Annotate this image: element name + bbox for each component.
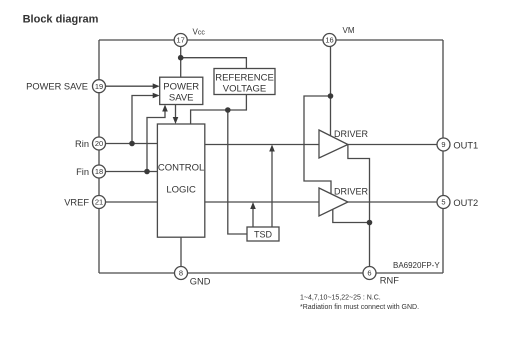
svg-text:6: 6 — [367, 269, 371, 278]
op-amp driver1 A1 — [319, 130, 348, 158]
svg-text:20: 20 — [95, 139, 103, 148]
pin 6 circle (RNF) — [363, 267, 376, 280]
arrowhead: TSD up to driver1 line — [269, 145, 275, 152]
svg-text:VREF: VREF — [64, 197, 89, 207]
svg-text:19: 19 — [95, 82, 103, 91]
block: REFERENCE VOLTAGE U2 — [214, 69, 275, 95]
wire: TSD output arrow line to driver1 input line — [271, 149, 273, 227]
wire: VM drop from pin 16 into driver1 top — [330, 47, 332, 136]
wire: POWER SAVE to CONTROL LOGIC — [175, 105, 177, 118]
wire: Fin line to CONTROL LOGIC — [106, 171, 158, 173]
svg-text:DRIVER: DRIVER — [334, 187, 369, 197]
svg-text:RNF: RNF — [380, 276, 399, 286]
block: CONTROL LOGIC U3 — [157, 124, 204, 237]
svg-text:Vcc: Vcc — [193, 28, 206, 37]
pin 17 circle (Vcc) — [174, 34, 187, 47]
wire: outer bottom rail (GND rail) — [99, 272, 443, 274]
wire: CONTROL LOGIC to driver2 input — [205, 201, 319, 203]
wire: outer right rail (OUT rail) — [442, 40, 444, 273]
svg-text:Block diagram: Block diagram — [23, 14, 99, 26]
junction: Vcc node dot — [178, 55, 184, 61]
pin 18 circle (Fin) — [93, 165, 106, 178]
wire: TSD output arrow line to driver2 input line — [252, 207, 254, 228]
svg-text:TSD: TSD — [254, 230, 273, 240]
svg-text:VOLTAGE: VOLTAGE — [223, 84, 266, 95]
svg-text:16: 16 — [325, 36, 333, 45]
wire: driver2 output to pin 5 — [348, 201, 437, 203]
pin 9 circle (OUT1) — [437, 138, 450, 151]
junction: RNF node dot — [367, 220, 373, 226]
svg-text:9: 9 — [441, 140, 445, 149]
wire: driver2 sense tap to RNF node — [333, 209, 370, 222]
wire: outer left rail (input pin rail) — [98, 40, 100, 273]
wire: driver1 sense tap to RNF node — [348, 145, 370, 223]
arrowhead: pin19 into POWER SAVE — [153, 83, 160, 89]
wire: Fin branch up to POWER SAVE bottom — [147, 111, 165, 172]
wire: outer top rail (Vcc/VM rail) — [99, 39, 443, 41]
wire: CONTROL LOGIC to driver1 input — [205, 144, 319, 146]
svg-text:CONTROL: CONTROL — [158, 163, 204, 174]
junction: reference node dot — [225, 107, 231, 113]
pin 19 circle (POWER SAVE) — [93, 80, 106, 93]
svg-text:BA6920FP-Y: BA6920FP-Y — [393, 261, 440, 270]
svg-text:21: 21 — [95, 198, 103, 207]
svg-text:POWER SAVE: POWER SAVE — [26, 82, 88, 92]
junction: Fin node dot — [144, 169, 150, 175]
arrowhead: Fin branch into POWER SAVE bottom — [162, 105, 168, 112]
block: POWER SAVE U1 — [160, 77, 203, 104]
arrowhead: POWER SAVE down into CONTROL LOGIC — [173, 117, 179, 124]
svg-text:17: 17 — [177, 36, 185, 45]
wire: CONTROL LOGIC bottom to GND pin 8 — [180, 237, 182, 266]
svg-text:REFERENCE: REFERENCE — [215, 73, 274, 84]
pin 8 circle (GND) — [175, 267, 188, 280]
svg-text:18: 18 — [95, 167, 103, 176]
svg-text:VM: VM — [343, 26, 355, 35]
arrowhead: Rin branch into POWER SAVE — [153, 93, 160, 99]
wire: driver1 output to pin 9 — [348, 144, 437, 146]
svg-text:8: 8 — [179, 269, 183, 278]
pin 21 circle (VREF) — [93, 196, 106, 209]
wire: REFERENCE VOLTAGE bottom to CONTROL LOGIC top — [191, 95, 247, 125]
wire: VREF line to CONTROL LOGIC — [106, 201, 158, 203]
pin 20 circle (Rin) — [93, 137, 106, 150]
svg-text:Rin: Rin — [75, 139, 89, 149]
svg-text:GND: GND — [190, 277, 211, 287]
svg-text:POWER: POWER — [163, 82, 199, 93]
svg-text:SAVE: SAVE — [169, 93, 194, 104]
svg-text:OUT1: OUT1 — [453, 140, 478, 150]
wire: Rin branch up to POWER SAVE — [132, 96, 154, 144]
op-amp driver2 A2 — [319, 188, 348, 216]
wire: Vcc drop from pin 17 to POWER SAVE top — [180, 47, 182, 78]
wire: Rin line to CONTROL LOGIC — [106, 143, 158, 145]
svg-text:5: 5 — [441, 198, 445, 207]
svg-text:LOGIC: LOGIC — [166, 185, 196, 196]
wire: RNF node down to pin 6 — [369, 223, 371, 267]
wire: pin19 to POWER SAVE input — [106, 85, 154, 87]
pin 5 circle (OUT2) — [437, 196, 450, 209]
svg-text:1~4,7,10~15,22~25 : N.C.: 1~4,7,10~15,22~25 : N.C. — [300, 295, 381, 302]
arrowhead: TSD up to driver2 line — [250, 202, 256, 209]
junction: Rin node dot — [129, 141, 135, 147]
svg-text:Fin: Fin — [76, 167, 89, 177]
junction: VM node dot — [328, 93, 334, 99]
wire: reference feed down to TSD left — [228, 110, 247, 234]
svg-text:OUT2: OUT2 — [453, 198, 478, 208]
wire: VM branch to driver2 top — [304, 96, 331, 194]
svg-text:DRIVER: DRIVER — [334, 129, 369, 139]
pin 16 circle (VM) — [323, 34, 336, 47]
block: TSD U4 — [247, 227, 279, 241]
svg-text:*Radiation fin must connect wi: *Radiation fin must connect with GND. — [300, 304, 419, 311]
wire: Vcc branch to REFERENCE VOLTAGE top — [181, 58, 247, 69]
